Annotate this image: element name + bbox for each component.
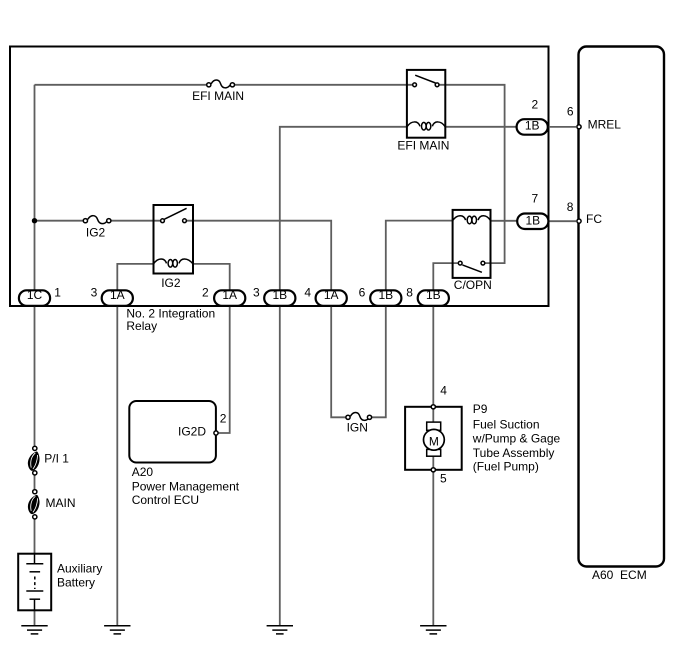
svg-text:Fuel Suction: Fuel Suction: [473, 418, 540, 432]
svg-text:MAIN: MAIN: [46, 496, 76, 510]
svg-text:6: 6: [359, 285, 366, 299]
ECM terminal FC: [577, 219, 581, 223]
fusible link P/I 1: [28, 446, 40, 475]
svg-text:IG2: IG2: [86, 226, 106, 240]
svg-text:1A: 1A: [110, 288, 125, 302]
svg-text:8: 8: [406, 285, 413, 299]
svg-text:Tube Assembly: Tube Assembly: [473, 446, 555, 460]
pin 2 terminal of A20: [214, 431, 218, 435]
wire: 1B pin3 to ground: [279, 306, 281, 626]
svg-text:P/I 1: P/I 1: [44, 452, 69, 466]
svg-text:8: 8: [567, 200, 574, 214]
svg-text:1B: 1B: [272, 288, 287, 302]
wire: 1A pin3 to ground: [116, 306, 118, 626]
svg-text:2: 2: [531, 97, 538, 111]
fusible link MAIN: [28, 490, 40, 519]
wire: battery to ground: [34, 610, 36, 625]
wire: fuel pump pin 5 to ground: [432, 472, 434, 625]
svg-text:Relay: Relay: [126, 319, 157, 333]
wire: P/I 1 to MAIN link: [34, 476, 36, 490]
svg-text:M: M: [429, 435, 439, 449]
battery Auxiliary: [18, 554, 51, 611]
svg-text:1B: 1B: [426, 288, 441, 302]
fuse EFI MAIN: [207, 80, 235, 88]
svg-text:EFI MAIN: EFI MAIN: [397, 138, 449, 152]
fuse IG2: [83, 216, 111, 224]
relay EFI MAIN: [407, 70, 445, 138]
wire: IG2 branch junction to IG2 fuse: [35, 220, 84, 222]
svg-text:IG2: IG2: [161, 276, 181, 290]
wire: IG2 relay coil left to 1A pin3: [117, 264, 153, 290]
wire: 1B oval to ECM MREL terminal: [548, 126, 576, 128]
svg-text:1A: 1A: [222, 288, 237, 302]
relay IG2: [154, 205, 194, 274]
svg-text:Battery: Battery: [57, 576, 95, 590]
wire: EFI MAIN relay coil left to 1B pin3: [280, 127, 407, 290]
svg-text:MREL: MREL: [588, 118, 622, 132]
connector 1C: [19, 288, 50, 306]
svg-text:FC: FC: [586, 212, 602, 226]
fuel pump P9 box: [405, 407, 462, 470]
svg-text:w/Pump & Gage: w/Pump & Gage: [472, 432, 561, 446]
svg-text:IG2D: IG2D: [178, 425, 206, 439]
svg-text:4: 4: [304, 285, 311, 299]
relay C/OPN: [453, 210, 491, 278]
wire: EFI MAIN relay contact to C/OPN switch: [440, 85, 505, 263]
connector 1B pin 6: [370, 288, 401, 306]
connector 1A pin 3: [102, 288, 133, 306]
wire: FC oval to ECM FC terminal: [549, 220, 576, 222]
wire: IGN fuse to 1B pin6: [372, 306, 386, 417]
wire: C/OPN coil left to 1B pin6: [386, 221, 453, 290]
wire: fuel pump internal leads: [432, 409, 434, 467]
connector 1B pin 8: [418, 288, 449, 306]
wire: C/OPN coil right to 1B FC oval: [491, 220, 518, 222]
relay block box No. 2 Integration Relay: [10, 47, 549, 307]
svg-text:4: 4: [440, 383, 447, 397]
ground fuel pump: [420, 626, 446, 634]
wire: EFI MAIN fuse to relay contact: [235, 84, 412, 86]
node junction battery feed / IG2 branch: [32, 218, 37, 223]
motor M symbol: [424, 422, 445, 456]
svg-text:C/OPN: C/OPN: [454, 278, 492, 292]
svg-text:1C: 1C: [27, 288, 43, 302]
fuel pump terminal pin 5: [431, 468, 435, 472]
connector 1B pin 3: [264, 288, 295, 306]
svg-text:Control ECU: Control ECU: [132, 493, 199, 507]
ground relay block: [104, 626, 130, 634]
svg-text:Auxiliary: Auxiliary: [57, 562, 102, 576]
wire: EFI MAIN relay coil right to 1B MREL oval: [445, 126, 516, 128]
svg-text:1B: 1B: [378, 288, 393, 302]
wire: 1C down to P/I 1: [34, 306, 36, 446]
svg-text:A60 ECM: A60 ECM: [592, 568, 647, 582]
svg-text:1B: 1B: [525, 213, 540, 227]
svg-text:1B: 1B: [525, 119, 540, 133]
svg-text:A20: A20: [132, 465, 154, 479]
wire: IG2 relay coil right to 1A pin2: [193, 264, 230, 290]
connector 1B pin 2 MREL: [517, 119, 548, 135]
ground battery: [21, 626, 47, 634]
connector 1A pin 4: [316, 288, 347, 306]
svg-text:1A: 1A: [324, 288, 339, 302]
ground EFI relay coil: [267, 626, 293, 634]
wire: 1A pin4 down to IGN fuse: [331, 306, 345, 417]
wire: EFI MAIN feed horizontal to fuse: [35, 84, 207, 86]
fuel pump terminal pin 4: [431, 405, 435, 409]
svg-text:2: 2: [202, 285, 209, 299]
A20 Power Management Control ECU box: [129, 401, 216, 463]
wire: 1B pin8 down to fuel pump pin 4: [432, 306, 434, 404]
ECM box A60: [579, 47, 665, 567]
svg-text:7: 7: [531, 192, 538, 206]
svg-text:Power Management: Power Management: [132, 479, 240, 493]
svg-text:IGN: IGN: [347, 421, 368, 435]
svg-text:P9: P9: [473, 402, 488, 416]
svg-text:1: 1: [54, 285, 61, 299]
ECM terminal MREL: [577, 125, 581, 129]
svg-text:(Fuel Pump): (Fuel Pump): [473, 459, 539, 473]
svg-text:2: 2: [220, 412, 227, 426]
wire: 1A pin2 down to A20 IG2D pin 2: [219, 306, 230, 433]
svg-text:EFI MAIN: EFI MAIN: [192, 89, 244, 103]
svg-text:6: 6: [567, 105, 574, 119]
connector 1B pin 7 FC: [517, 213, 548, 229]
wire: IG2 relay contact to 1A pin4: [187, 221, 331, 290]
wire: battery feed vertical from EFI MAIN wire down to 1C: [34, 85, 36, 290]
fuse IGN: [346, 413, 372, 421]
connector 1A pin 2: [214, 288, 245, 306]
wire: C/OPN switch left to 1B pin8: [433, 263, 458, 290]
svg-text:5: 5: [440, 472, 447, 486]
svg-text:3: 3: [91, 285, 98, 299]
wire: IG2 fuse to IG2 relay contact: [111, 220, 160, 222]
wire: MAIN link to battery: [34, 520, 36, 554]
svg-text:3: 3: [253, 285, 260, 299]
